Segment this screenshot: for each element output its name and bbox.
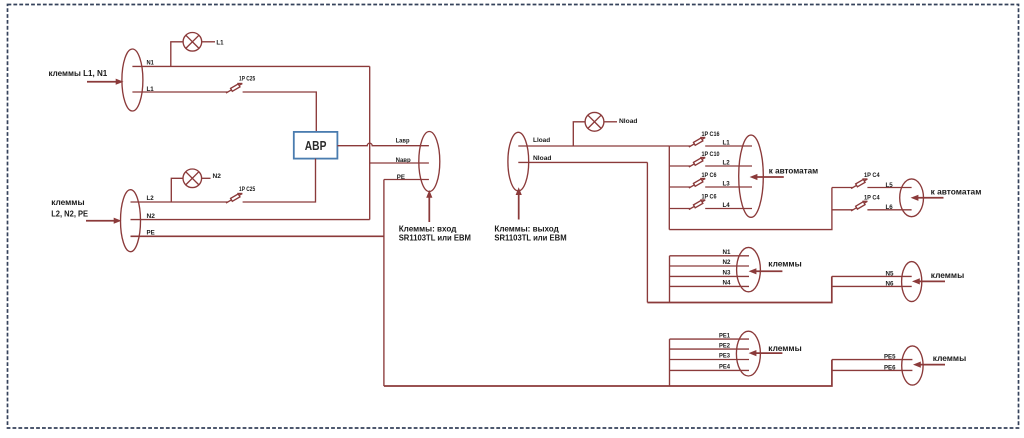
- wire stub breaker QF7: [832, 187, 853, 189]
- wire PE input 2: [131, 235, 384, 237]
- wire PE6: [832, 369, 913, 371]
- svg-text:L2: L2: [147, 195, 155, 202]
- node Клеммы вход (UPS input terminal ellipse): [419, 132, 440, 192]
- breaker QF3 1P C16: [689, 138, 705, 148]
- wire Nload vertical drop: [646, 162, 648, 302]
- arrow клеммы N1-N4: [756, 270, 782, 272]
- arrow into input 2 ellipse: [86, 220, 114, 222]
- wire L2 out: [705, 165, 752, 167]
- wire L2 from input 2 to breaker QF2: [131, 201, 228, 203]
- node клеммы PE1-PE4 (ellipse): [736, 331, 760, 376]
- arrow клеммы PE1-PE4: [756, 352, 782, 354]
- svg-text:Lload: Lload: [533, 137, 550, 144]
- wire N2 term: [670, 265, 750, 267]
- breaker QF6 1P C6: [689, 200, 705, 210]
- breaker QF4 1P C10: [689, 158, 705, 168]
- svg-text:N2: N2: [723, 259, 732, 266]
- wire L bus bottom run to L5/L6 group: [669, 188, 832, 230]
- svg-text:L2, N2, PE: L2, N2, PE: [51, 208, 88, 218]
- wire L1 out: [705, 145, 752, 147]
- svg-text:L1: L1: [216, 40, 224, 47]
- arrow к автоматам L1-L4: [757, 176, 784, 178]
- wire L5: [867, 187, 911, 189]
- svg-text:1P C16: 1P C16: [702, 131, 720, 138]
- svg-text:PE4: PE4: [719, 364, 731, 371]
- svg-text:1P C4: 1P C4: [864, 172, 880, 179]
- wire lamp HL3 stub: [573, 122, 585, 146]
- svg-text:N2: N2: [213, 173, 222, 180]
- arrow клеммы N5-N6: [920, 280, 946, 282]
- svg-text:АВР: АВР: [305, 138, 327, 153]
- breaker QF8 1P C4: [851, 201, 867, 211]
- wire L4 out: [705, 208, 752, 210]
- node Клеммы выход (UPS output terminal ellipse): [508, 132, 529, 191]
- svg-text:1P C6: 1P C6: [702, 193, 717, 200]
- node клеммы N5-N6 (ellipse): [902, 262, 922, 302]
- svg-text:N1: N1: [147, 60, 155, 67]
- wire lamp HL1 stub: [171, 42, 183, 67]
- svg-text:PE2: PE2: [719, 342, 731, 349]
- wire N6: [832, 285, 912, 287]
- svg-text:клеммы: клеммы: [51, 197, 84, 207]
- wire N3 term: [670, 275, 750, 277]
- wire N1 term: [670, 255, 750, 257]
- svg-text:Lавр: Lавр: [396, 138, 410, 145]
- svg-text:клеммы: клеммы: [768, 259, 801, 269]
- wire Nload to drop: [518, 161, 647, 163]
- svg-text:SR1103TL или EBM: SR1103TL или EBM: [494, 232, 566, 242]
- svg-text:N2: N2: [147, 213, 156, 220]
- svg-text:1P C25: 1P C25: [239, 186, 256, 193]
- wire L1 to breaker QF1: [132, 91, 227, 93]
- node к автоматам L1-L4 (big ellipse): [739, 135, 764, 217]
- wire PE bus bottom run: [384, 360, 832, 386]
- wire lamp HL3 right lead: [604, 121, 617, 123]
- wire PE stub to input ellipse: [384, 179, 429, 181]
- wire N5: [832, 275, 912, 277]
- wire PE3: [670, 359, 750, 361]
- svg-text:N3: N3: [723, 270, 732, 277]
- wire stub breaker QF6: [669, 208, 690, 210]
- lamp HL3: [585, 112, 604, 131]
- arrow к автоматам L5-L6: [918, 197, 944, 199]
- arrow into UPS input ellipse: [428, 193, 430, 222]
- node клеммы L1,N1 (input 1 terminal ellipse): [122, 49, 143, 111]
- lamp HL1: [183, 33, 202, 52]
- wire ABP bottom to L2: [243, 159, 316, 202]
- wire stub breaker QF4: [669, 165, 690, 167]
- svg-text:к автоматам: к автоматам: [769, 166, 818, 176]
- wire N2: [131, 219, 370, 221]
- svg-text:1P C4: 1P C4: [864, 195, 880, 202]
- node клеммы N1-N4 (ellipse): [737, 247, 761, 291]
- arrow into UPS output ellipse: [518, 191, 520, 220]
- wire PE5: [832, 359, 913, 361]
- wire PE vertical down: [383, 180, 385, 387]
- svg-text:клеммы L1, N1: клеммы L1, N1: [49, 68, 108, 78]
- arrow клеммы PE5-PE6: [921, 364, 946, 366]
- wire Lload: [518, 145, 669, 147]
- svg-text:клеммы: клеммы: [768, 343, 801, 353]
- op-amp U1 ABP control box: [294, 132, 338, 159]
- wire N bus vertical: [669, 256, 671, 303]
- svg-text:клеммы: клеммы: [933, 353, 966, 363]
- svg-text:PE: PE: [147, 229, 155, 236]
- wire stub breaker QF5: [669, 186, 690, 188]
- node к автоматам L5-L6 (ellipse): [900, 179, 924, 217]
- wire Nавр: [370, 162, 429, 164]
- wire lamp HL2 right lead: [202, 177, 211, 179]
- svg-text:1P C10: 1P C10: [702, 151, 720, 158]
- wire stub breaker QF3: [669, 145, 690, 147]
- wire Lавр from ABP with hop over N: [337, 143, 429, 146]
- breaker QF5 1P C6: [689, 179, 705, 189]
- wire lamp HL2 stub: [171, 178, 183, 202]
- breaker QF1 1P C25: [226, 84, 242, 94]
- svg-text:к автоматам: к автоматам: [931, 186, 982, 196]
- node клеммы PE5-PE6 (ellipse): [902, 346, 923, 385]
- wire PE1: [670, 338, 750, 340]
- wire N1: [132, 65, 369, 67]
- breaker QF2 1P C25: [226, 194, 242, 204]
- svg-text:1P C6: 1P C6: [702, 172, 717, 179]
- node клеммы L2,N2,PE (input 2 terminal ellipse): [121, 190, 141, 252]
- wire stub breaker QF8: [832, 209, 853, 211]
- wire L1 from breaker QF1 to ABP: [243, 92, 317, 132]
- arrow into input 1 ellipse: [87, 81, 116, 83]
- svg-text:PE3: PE3: [719, 353, 731, 360]
- wire PE bus vertical: [669, 339, 671, 386]
- svg-text:PE1: PE1: [719, 332, 731, 339]
- svg-text:клеммы: клеммы: [931, 270, 964, 280]
- wire N4 term: [670, 285, 750, 287]
- svg-text:Nload: Nload: [619, 118, 638, 125]
- wire PE4: [670, 369, 750, 371]
- wire PE2: [670, 348, 750, 350]
- wire N bus bottom run: [647, 276, 831, 302]
- breaker QF7 1P C4: [851, 179, 867, 189]
- svg-text:Nload: Nload: [533, 155, 552, 162]
- svg-text:1P C25: 1P C25: [239, 75, 256, 82]
- wire L6: [867, 209, 911, 211]
- wire L bus vertical: [668, 146, 670, 230]
- svg-text:SR1103TL или EBM: SR1103TL или EBM: [399, 232, 471, 242]
- lamp HL2: [183, 169, 202, 188]
- wire lamp HL1 right lead: [202, 41, 215, 43]
- svg-text:N4: N4: [723, 280, 732, 287]
- wire N vertical tie N1-N2: [369, 66, 371, 219]
- wire L3 out: [705, 186, 752, 188]
